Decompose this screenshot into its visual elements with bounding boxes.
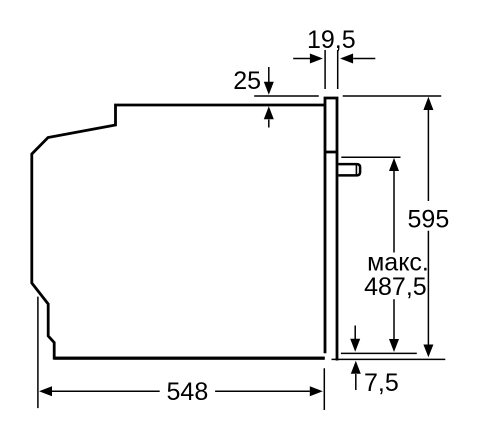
- svg-text:595: 595: [408, 206, 450, 234]
- svg-text:25: 25: [233, 67, 261, 95]
- svg-text:19,5: 19,5: [307, 26, 356, 54]
- svg-text:487,5: 487,5: [364, 273, 427, 301]
- svg-text:548: 548: [167, 378, 209, 406]
- svg-text:7,5: 7,5: [364, 369, 399, 397]
